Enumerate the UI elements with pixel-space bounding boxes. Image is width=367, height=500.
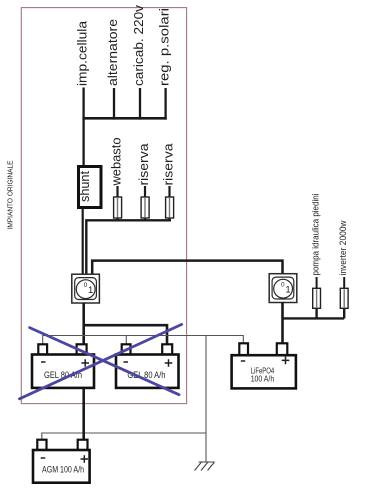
svg-text:AGM 100 A/h: AGM 100 A/h	[42, 465, 84, 475]
GEL1 battery	[32, 344, 94, 388]
svg-text:riserva: riserva	[162, 143, 176, 185]
svg-text:alternatore: alternatore	[106, 19, 120, 86]
fuse F-webasto	[114, 186, 122, 221]
wire alternatore stub	[113, 88, 115, 120]
AGM negative thin wire	[42, 433, 206, 440]
bus wire S1 to S2	[92, 261, 282, 275]
wire reg. p.solari stub	[164, 88, 166, 120]
svg-text:1: 1	[88, 285, 93, 296]
blue cross stroke A	[30, 328, 179, 395]
svg-text:IMPIANTO ORIGINALE: IMPIANTO ORIGINALE	[5, 161, 14, 230]
wire branch to GEL2 plus	[84, 325, 167, 344]
svg-text:caricab. 220v: caricab. 220v	[132, 4, 146, 86]
svg-text:shunt: shunt	[77, 171, 92, 202]
wire S2 to LiFePO4 plus	[281, 302, 284, 343]
AGM battery	[33, 440, 90, 483]
fuse bus wire	[86, 220, 171, 274]
svg-text:imp.cellula: imp.cellula	[76, 21, 90, 86]
impianto originale boundary box	[21, 8, 186, 404]
wire S1 to GEL1 plus	[82, 303, 85, 345]
svg-text:reg. p.solari: reg. p.solari	[158, 8, 172, 86]
GEL2 battery	[116, 344, 179, 388]
svg-text:riserva: riserva	[137, 143, 151, 185]
LiFePO4 battery	[232, 343, 296, 388]
wire caricab stub	[139, 88, 141, 120]
chassis ground	[195, 462, 215, 471]
fuse F-inverter	[340, 277, 348, 308]
wire shunt to switch S1	[82, 208, 84, 275]
wire GEL1 to AGM plus	[82, 388, 85, 440]
svg-text:100 A/h: 100 A/h	[251, 373, 275, 383]
battery switch S2	[269, 274, 297, 303]
fuse F-pompa	[313, 277, 321, 308]
shunt R	[77, 167, 101, 208]
wire imp.cellula to shunt	[82, 88, 84, 168]
right fuse feed bus	[283, 308, 345, 318]
svg-text:pompa idraulica piedini: pompa idraulica piedini	[310, 194, 321, 276]
svg-text:webasto: webasto	[110, 137, 124, 186]
ground drop wire	[205, 336, 207, 463]
fuse F-riserva2	[166, 186, 174, 221]
fuse F-riserva1	[141, 186, 149, 221]
svg-text:1: 1	[285, 284, 290, 295]
svg-text:inverter 2000w: inverter 2000w	[338, 220, 349, 275]
top distribution bus	[82, 117, 166, 120]
blue cross stroke B	[20, 324, 182, 398]
negative thin bus GEL batteries to LiFePO4	[43, 336, 244, 345]
battery switch S1	[72, 274, 100, 303]
